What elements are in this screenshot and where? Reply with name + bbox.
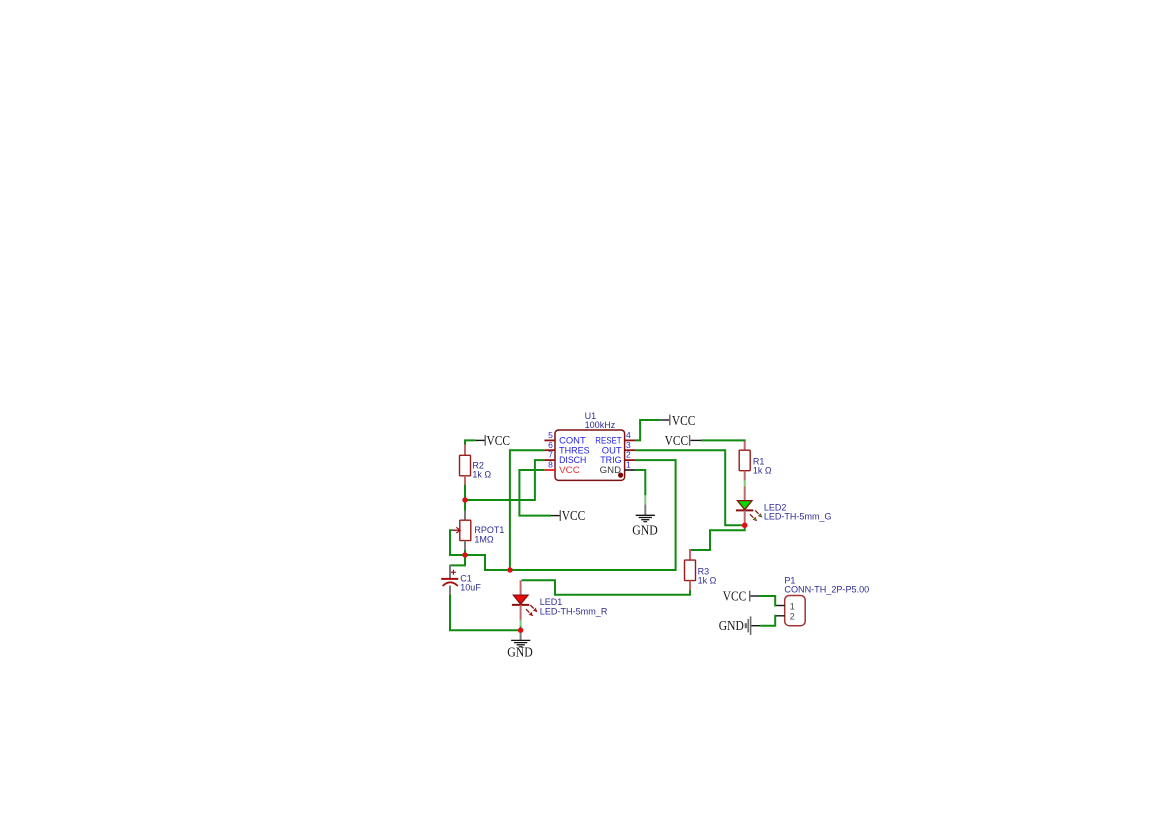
svg-text:10uF: 10uF xyxy=(460,583,481,593)
power flag VCC (right, to R1) xyxy=(665,433,701,448)
ground symbol (below LED1) xyxy=(511,630,530,647)
U1 pin 6 stub xyxy=(544,449,555,451)
LED LED1 (red) xyxy=(512,580,538,620)
U1 pin 2 stub xyxy=(625,459,636,461)
node B junction xyxy=(462,552,467,557)
svg-text:6: 6 xyxy=(548,440,553,450)
U1 pin 4 stub xyxy=(625,439,636,441)
ground flag GND (at P1 pin 2) xyxy=(719,616,760,635)
svg-text:5: 5 xyxy=(548,430,553,440)
LED LED2 (green) xyxy=(736,487,762,524)
svg-text:GND: GND xyxy=(632,523,658,538)
wire U1 pin4 RESET to VCC flag xyxy=(635,420,660,440)
svg-text:1k Ω: 1k Ω xyxy=(753,466,772,476)
U1 pin 7 stub xyxy=(544,459,555,461)
U1 pin 3 stub xyxy=(625,449,636,451)
pin1 net light segment xyxy=(644,495,646,505)
svg-text:1k Ω: 1k Ω xyxy=(698,576,717,586)
node A junction xyxy=(462,497,467,502)
svg-text:VCC: VCC xyxy=(487,433,511,448)
power flag VCC (middle, below U1) xyxy=(551,508,585,523)
power flag VCC (at P1 pin 1) xyxy=(723,589,760,604)
wire node A down to RPOT1 xyxy=(464,500,466,511)
node E junction xyxy=(742,523,748,529)
U1 pin 1 marker dot xyxy=(618,473,623,478)
wire node B to capacitor C1 xyxy=(450,555,465,565)
potentiometer RPOT1 xyxy=(451,511,471,551)
U1 pin 1 stub xyxy=(625,469,636,471)
wire VCC flag to R1 top xyxy=(701,440,745,442)
svg-text:GND: GND xyxy=(507,644,533,659)
svg-text:LED-TH-5mm_G: LED-TH-5mm_G xyxy=(764,512,832,522)
svg-text:2: 2 xyxy=(626,450,631,460)
wire segment LED1 to node D xyxy=(520,620,522,627)
wire GND flag to P1 pin 2 xyxy=(760,616,776,626)
svg-text:LED-TH-5mm_R: LED-TH-5mm_R xyxy=(540,606,608,616)
node D junction xyxy=(518,628,523,633)
ground symbol (middle, below U1) xyxy=(636,505,655,522)
svg-text:4: 4 xyxy=(626,430,631,440)
power flag VCC (top-left, above R2) xyxy=(475,433,510,448)
svg-text:7: 7 xyxy=(548,450,553,460)
svg-text:GND: GND xyxy=(719,618,744,633)
U1 pin 8 stub xyxy=(544,469,555,471)
wire VCC flag to P1 pin 1 xyxy=(760,596,777,606)
wire U1 pin1 GND to ground xyxy=(635,470,645,496)
svg-text:1: 1 xyxy=(626,460,631,470)
node C junction xyxy=(507,567,512,572)
op-amp timer U1 body xyxy=(555,430,625,480)
wire node A to U1 pin7 DISCH xyxy=(465,460,544,500)
svg-text:100kHz: 100kHz xyxy=(585,420,616,430)
svg-text:1k Ω: 1k Ω xyxy=(472,470,491,480)
svg-text:1MΩ: 1MΩ xyxy=(474,534,494,544)
svg-text:1: 1 xyxy=(790,601,795,611)
capacitor C1 (polarized) xyxy=(441,565,458,596)
svg-text:VCC: VCC xyxy=(672,413,696,428)
wire segment R1 to LED2 xyxy=(744,480,746,487)
svg-text:CONN-TH_2P-P5.00: CONN-TH_2P-P5.00 xyxy=(784,585,869,595)
svg-text:VCC: VCC xyxy=(562,508,586,523)
wire U1 pin6 THRES to node C xyxy=(510,450,545,568)
wire U1 pin8 to VCC flag xyxy=(519,470,551,516)
wire U1 pin2 TRIG to node C xyxy=(510,460,676,570)
svg-text:2: 2 xyxy=(790,612,795,622)
resistor R3 xyxy=(685,549,696,591)
svg-text:VCC: VCC xyxy=(559,465,580,476)
svg-text:3: 3 xyxy=(626,440,631,450)
U1 pin 5 stub xyxy=(544,439,555,441)
power flag VCC (top, above pin 4) xyxy=(660,413,695,428)
wire C1 bottom to node D xyxy=(450,595,518,630)
wire U1 pin3 OUT to node E xyxy=(635,450,742,525)
wire VCC flag to R2 top xyxy=(465,440,475,446)
wire node B to node C xyxy=(465,555,510,570)
wire R2 bottom to node A xyxy=(464,485,466,500)
resistor R1 xyxy=(739,441,750,481)
wire R3 bottom to LED1 top xyxy=(522,580,690,595)
connector P1 xyxy=(776,596,805,626)
wire RPOT1 wiper to node B xyxy=(450,530,465,555)
svg-text:VCC: VCC xyxy=(665,433,689,448)
svg-text:8: 8 xyxy=(548,460,553,470)
wire RPOT1 bottom to node B xyxy=(464,550,466,555)
svg-text:GND: GND xyxy=(600,465,621,476)
svg-text:VCC: VCC xyxy=(723,589,747,604)
wire node E to R3 top xyxy=(690,525,745,550)
resistor R2 xyxy=(460,445,471,486)
